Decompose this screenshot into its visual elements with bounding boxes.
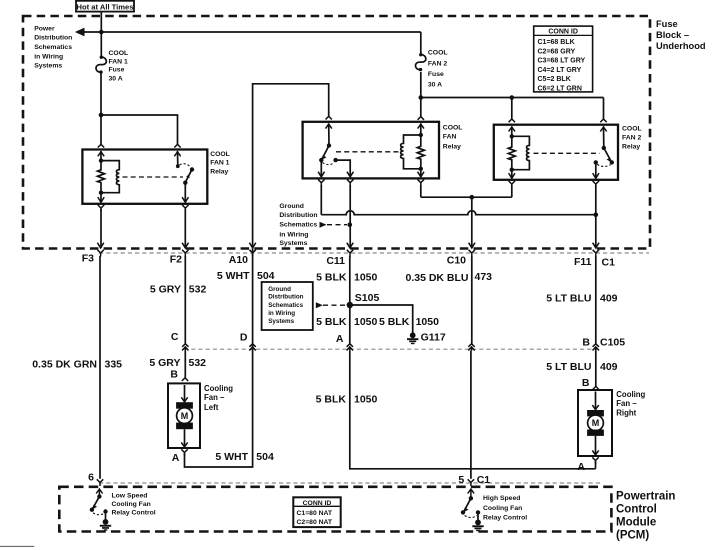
fan left Y below [181,449,187,456]
svg-text:D: D [240,332,248,344]
svg-text:Hot at All Times: Hot at All Times [77,2,134,11]
wire: branch to relay1 switch feed [101,115,178,144]
connector C10 arrow [469,243,475,248]
svg-text:FAN 1: FAN 1 [210,160,229,167]
power distribution left arrowhead [75,28,85,37]
svg-text:Cooling Fan: Cooling Fan [112,501,151,508]
svg-text:5 BLK: 5 BLK [379,316,410,328]
connector face line C1/C2 (grey) under fuse block [99,252,649,254]
svg-text:C5=2 BLK: C5=2 BLK [538,76,571,83]
callout 1 arrowhead [320,222,327,228]
svg-text:1050: 1050 [354,394,378,406]
relay box: COOL FAN 1 Relay [82,150,207,204]
svg-text:in Wiring: in Wiring [279,232,308,239]
wire: fan right A drop to ground rail [595,461,597,469]
pin caret middle relay coil top [418,117,424,120]
svg-text:0.35 DK BLU: 0.35 DK BLU [405,272,468,284]
svg-text:COOL: COOL [109,50,129,57]
fan box: Cooling Fan Left [168,383,200,448]
pin arrow relay1 switch top [174,152,180,157]
wire: middle relay NO to C11 [349,185,351,248]
svg-text:Systems: Systems [268,318,294,325]
PCM low speed switch blade [92,497,99,510]
svg-text:M: M [181,411,189,421]
fan2 relay coil-switch dashed link [534,152,600,154]
svg-text:Distribution: Distribution [34,35,72,42]
svg-text:Ground: Ground [268,286,291,293]
inline connector D [249,344,255,351]
svg-text:409: 409 [600,293,618,305]
junction dot ground distribution tap [348,222,353,227]
relay1 switch blade [186,170,192,182]
svg-text:5: 5 [458,474,464,486]
svg-text:Distribution: Distribution [279,212,317,219]
junction dot fan2 coil top [510,134,514,138]
wire: F3 to PCM pin 6 [99,256,101,479]
svg-text:B: B [582,377,590,389]
svg-text:473: 473 [475,271,493,283]
svg-text:C10: C10 [447,255,466,267]
svg-text:Systems: Systems [279,240,307,247]
svg-text:532: 532 [189,283,207,295]
resistor relay1 [98,161,105,193]
wire: middle relay common over to fan right feed (with hops) [321,211,596,215]
connector A10 Y [249,250,255,257]
svg-text:Cooling: Cooling [616,390,645,399]
connector C11 arrow [347,243,353,248]
svg-text:Fan –: Fan – [616,399,637,408]
svg-text:5 GRY: 5 GRY [149,357,180,369]
svg-text:Fan –: Fan – [204,393,225,402]
svg-text:Fuse: Fuse [109,67,125,74]
svg-text:C2=80 NAT: C2=80 NAT [297,519,333,526]
in-line connector C105 face line (grey) [184,348,597,350]
svg-text:A: A [172,452,180,464]
fan right caret B [593,386,599,389]
middle relay switch contact dots [327,143,331,147]
PCM high switch dots [469,496,473,500]
svg-text:Cooling: Cooling [204,384,233,393]
wire: fan2 relay common down to junction [595,185,597,248]
pin arrow fan2 relay common bottom [593,173,599,178]
pin caret relay1 switch top [174,144,180,147]
connector face line (grey) above PCM [99,482,601,484]
svg-text:5 LT BLU: 5 LT BLU [546,361,591,373]
svg-text:C1: C1 [477,474,491,486]
wire: fuse2 output rail [421,97,604,99]
svg-text:G117: G117 [421,332,446,344]
pin arrow middle relay switch top [326,124,332,129]
ground distribution callout 1 dashed arrow [327,224,347,226]
motor right internal wires [595,392,597,411]
svg-text:5 GRY: 5 GRY [150,283,181,295]
svg-text:Ground: Ground [279,203,304,210]
relay1 switch throw arc dashed [180,164,191,167]
pin arrow middle relay coil top [418,124,424,129]
svg-text:C4=2 LT GRY: C4=2 LT GRY [538,67,582,74]
PCM dashed box [59,487,611,532]
relay1 switch blade arrowhead [186,174,189,178]
svg-text:M: M [592,418,600,428]
fan2 relay common internal wire [595,162,597,178]
svg-text:0.35 DK GRN: 0.35 DK GRN [32,359,97,371]
wire: middle relay coil feed [420,98,422,117]
junction dot fuse2 rail [419,95,424,100]
relay1 switch contact dots [176,164,180,168]
ground PCM low [100,519,111,531]
svg-text:532: 532 [189,357,207,369]
svg-text:FAN 2: FAN 2 [428,60,447,67]
svg-text:409: 409 [600,361,618,373]
svg-text:CONN ID: CONN ID [303,500,332,507]
pin arrow middle relay common bottom [318,172,324,177]
ground G117 [407,332,418,344]
svg-text:C6=2 LT GRN: C6=2 LT GRN [538,85,582,92]
PCM high speed switch blade [464,498,471,512]
svg-text:C2=68 GRY: C2=68 GRY [538,48,576,55]
middle relay switch blade [322,146,329,160]
page artifact line bottom-left [0,545,34,547]
junction dot middle coil bottom [419,167,423,171]
wire: splice A to 5 BLK corner joining ground rail [350,351,596,469]
wire: fan2 relay coil bottom to bar [511,186,513,198]
coil relay1 [101,161,119,193]
svg-text:in Wiring: in Wiring [268,310,295,317]
pin arrow middle relay coil bottom [418,172,424,177]
middle relay switch feed internal [328,124,330,146]
wire: connector C to fan left B [184,351,186,378]
Hot at All Times box [76,1,134,12]
svg-text:A10: A10 [229,254,248,266]
relay box: COOL FAN 2 Relay [494,125,618,180]
fan right motor arrow top [592,405,598,410]
pin arrow middle relay NO bottom [347,172,353,177]
svg-text:Systems: Systems [34,63,62,70]
wire: power distribution arrow line [84,31,421,33]
wire: hot feed down from Hot at All Times box [100,12,102,57]
svg-text:Relay: Relay [210,168,228,175]
PCM pin5 arrow inside [468,489,474,498]
svg-text:Block –: Block – [656,30,689,40]
svg-text:COOL: COOL [428,50,448,57]
svg-text:B: B [582,336,590,348]
svg-text:5 BLK: 5 BLK [316,394,347,406]
svg-text:C1=68 BLK: C1=68 BLK [538,39,575,46]
svg-text:F2: F2 [170,254,182,266]
pin arrow relay1 coil bottom [98,197,104,202]
junction dot hot feed [99,30,104,35]
svg-text:A: A [577,461,585,473]
wire: fuse1 to relay1 coil [100,73,102,145]
wire: middle relay coil bottom to bar [420,185,422,197]
fuse COOL FAN 2 [415,54,425,70]
svg-text:5 WHT: 5 WHT [215,451,248,463]
relay1 internal feed wire [100,151,102,161]
pin Y relay1 coil bottom [98,205,104,212]
pin caret fan2 relay switch top [600,119,606,122]
pin arrow fan2 relay coil top [509,127,515,132]
connector F3 arrow [97,243,103,248]
connector F2 arrow [182,243,188,248]
svg-text:Fuse: Fuse [428,71,444,78]
fan right Y below [592,457,598,464]
fan left caret B [182,378,188,381]
PCM high speed throw arc dashed [465,516,477,518]
svg-text:30 A: 30 A [428,82,442,89]
pin arrow fan2 relay switch top [600,127,606,132]
coil fan2 relay [512,136,530,169]
svg-text:C3=68 LT GRY: C3=68 LT GRY [538,58,586,65]
svg-text:COOL: COOL [622,125,642,132]
svg-text:Relay Control: Relay Control [112,510,156,517]
coil middle relay [401,135,421,169]
svg-text:C11: C11 [326,255,345,267]
wire: C11 to S105 [349,256,351,344]
fan left motor arrow top [181,397,187,402]
junction dot fan2 coil feed [510,95,515,100]
junction dot relay1 branch [99,113,104,118]
svg-text:6: 6 [88,471,94,483]
middle relay common internal wire [320,160,322,177]
svg-text:Control: Control [616,504,657,516]
svg-text:Relay: Relay [443,144,461,151]
fan2 relay switch blade [604,148,612,162]
ground distribution boxed callout [262,282,313,330]
wire: middle relay common drop [320,185,322,215]
junction dot relay1 coil bottom [99,191,103,195]
svg-text:C1=80 NAT: C1=80 NAT [297,510,333,517]
fan2 relay coil out internal [511,170,513,179]
wire: F11/C1 down to B C105 [595,256,597,344]
pin Y relay1 common bottom [182,205,188,212]
pin caret fan2 relay coil top [509,119,515,122]
pin Y middle relay common bottom [318,180,324,187]
resistor fan2 relay [508,136,515,169]
pin Y fan2 relay common bottom [593,181,599,188]
wire: B C105 to fan right B [595,351,597,387]
junction dot coil bar [470,195,475,200]
pin arrow fan2 relay coil bottom [509,173,515,178]
middle relay coil-switch dashed link [336,151,400,153]
svg-text:1050: 1050 [354,272,378,284]
connector C11 Y [347,250,353,257]
svg-text:High Speed: High Speed [483,495,520,502]
svg-text:335: 335 [105,359,123,371]
wire: relay1 coil bottom to F3 [100,209,102,248]
svg-text:FAN 2: FAN 2 [622,135,641,142]
middle relay NO contact wire [336,160,351,177]
svg-text:CONN ID: CONN ID [548,29,578,36]
pin arrow relay1 coil top [98,152,104,157]
svg-text:(PCM): (PCM) [616,530,649,542]
inline connector B C105 [593,344,599,351]
svg-text:5 BLK: 5 BLK [316,316,347,328]
conn id box PCM [293,497,340,527]
ground PCM high [472,520,483,532]
svg-text:C105: C105 [600,336,625,348]
PCM low speed throw arc dashed [93,513,105,515]
wire: fuse2 to rail [420,72,422,98]
svg-text:Distribution: Distribution [268,294,303,301]
svg-text:in Wiring: in Wiring [34,53,63,60]
fuse COOL FAN 1 [96,57,106,73]
wire: fan2 relay switch feed [603,98,605,120]
PCM pin6 Y [97,479,103,486]
wire: coil bottoms bar [421,196,512,198]
wire: fuse2 drop [420,32,422,54]
junction dot fan-right feed [594,212,599,217]
middle relay throw arc dashed [323,163,335,165]
PCM low speed NO to ground wire [105,512,107,520]
conn id box underhood [534,26,593,92]
wire: fan left A down and right to 5 WHT [185,351,253,467]
relay1 switch feed internal [177,151,179,166]
fan2 relay blade arrowhead [607,158,611,162]
resistor middle relay [417,135,424,169]
relay1 internal coil out wire [100,193,102,203]
svg-text:Schematics: Schematics [34,44,72,51]
svg-text:5 BLK: 5 BLK [316,272,347,284]
wire: relay1 common to F2 [184,209,186,248]
svg-text:Left: Left [204,403,219,412]
svg-text:Cooling Fan: Cooling Fan [483,505,522,512]
svg-text:F3: F3 [82,253,94,265]
fan2 relay switch feed internal [603,126,605,147]
connector F2 Y [182,250,188,257]
wire: C10 to C105 row [471,256,473,344]
svg-text:Relay Control: Relay Control [483,514,527,521]
junction dot fan2 coil bottom [510,168,514,172]
wire: F2 to connector C [184,256,186,344]
pin Y middle relay coil bottom [418,180,424,187]
svg-text:Fuse: Fuse [656,19,678,29]
junction dot relay1 coil top [99,158,103,162]
svg-text:COOL: COOL [443,125,463,132]
fan2 relay throw arc dashed [597,164,610,166]
svg-text:F11: F11 [574,256,592,268]
inline connector at C10 column [468,344,474,351]
pin Y middle relay NO bottom [347,180,353,187]
svg-text:1050: 1050 [416,316,440,328]
svg-text:B: B [170,368,178,380]
svg-text:504: 504 [257,270,275,282]
fuse block underhood dashed box [23,16,650,249]
svg-text:30 A: 30 A [109,75,123,82]
svg-text:C: C [171,331,179,343]
callout 2 arrowhead [316,302,323,308]
pin caret relay1 coil top [98,144,104,147]
PCM high speed NO to ground wire [477,512,479,519]
svg-text:C1: C1 [602,257,616,269]
wire: S105 ground branch [350,305,413,333]
svg-text:A: A [336,333,344,345]
wire: C10 column to PCM pin 5 [470,351,472,479]
pin caret middle relay switch top [326,116,332,119]
svg-text:Underhood: Underhood [656,41,706,51]
relay1 common internal wire [184,183,186,203]
inline connector C [182,344,188,351]
fan right motor arrow bottom [592,450,598,455]
PCM pin6 arrow inside [96,489,102,497]
PCM pin5 Y [468,479,474,486]
connector A10 arrow [249,243,255,248]
svg-text:Low Speed: Low Speed [112,493,148,500]
svg-text:FAN: FAN [443,134,457,141]
connector F11/C1 Y [593,250,599,257]
middle relay coil out internal [420,169,422,177]
connector C10 Y [469,250,475,257]
svg-text:Schematics: Schematics [279,222,317,229]
svg-text:S105: S105 [355,292,380,304]
fan2 relay coil feed internal [511,126,513,136]
wire: fan2 relay coil feed [511,98,513,120]
motor left internal wires [184,385,186,402]
middle relay blade arrowhead [323,155,327,159]
motor left symbol [176,402,193,429]
inline connector A [347,344,353,351]
junction dot middle coil top [419,133,423,137]
fan box: Cooling Fan Right [578,390,612,456]
PCM low switch dots [97,494,101,498]
relay box: COOL FAN Relay [303,122,439,179]
svg-text:5 LT BLU: 5 LT BLU [546,293,591,305]
middle relay coil feed internal [420,124,422,136]
svg-text:Module: Module [616,517,656,529]
wire: A10 loop to middle relay switch feed [253,84,329,351]
pin arrow relay1 common bottom [182,197,188,202]
svg-text:COOL: COOL [210,151,230,158]
svg-text:FAN 1: FAN 1 [109,58,128,65]
svg-text:Relay: Relay [622,144,640,151]
wire: C10 column down from bar [471,197,473,248]
connector F3 Y [97,250,103,257]
fan left motor arrow bottom [181,442,187,447]
connector F11/C1 arrow [593,243,599,248]
motor right symbol [587,410,604,436]
svg-text:Power: Power [34,26,55,33]
svg-text:Right: Right [616,409,636,418]
svg-text:1050: 1050 [354,316,378,328]
fan2 relay switch contact dots [602,146,606,150]
svg-text:Schematics: Schematics [268,302,303,309]
ground distribution callout 2 dashed arrow [323,304,346,306]
svg-text:Powertrain: Powertrain [616,491,675,503]
svg-text:5 WHT: 5 WHT [217,270,250,282]
splice S105 [347,302,353,308]
pin Y fan2 relay coil bottom [509,181,515,188]
relay1 coil-switch dashed link [123,176,184,178]
svg-text:504: 504 [256,451,274,463]
